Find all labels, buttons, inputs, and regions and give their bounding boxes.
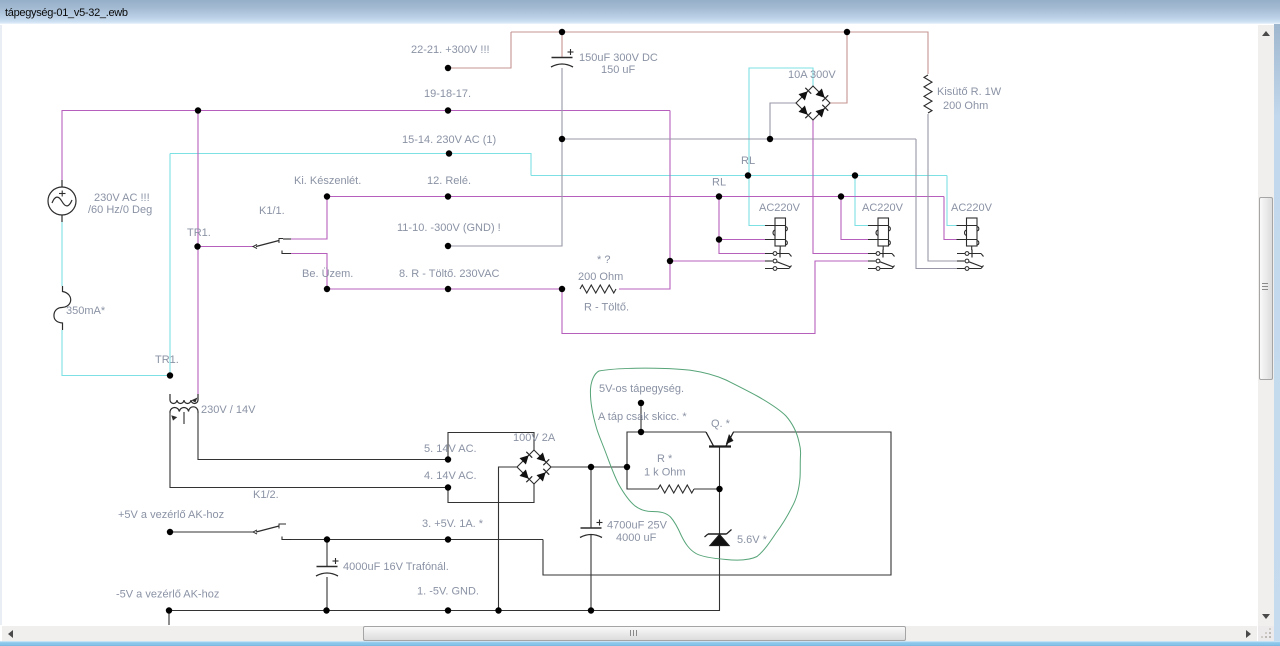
- switch K1/2 symbol: [253, 524, 291, 540]
- label "Q. *": [711, 418, 731, 430]
- wire cyan TR1 vertical: [169, 154, 171, 376]
- label "19-18-17.": [424, 88, 471, 100]
- label "230V / 14V": [201, 404, 256, 416]
- wire R* left lead: [627, 467, 658, 489]
- svg-text:3. +5V. 1A. *: 3. +5V. 1A. *: [422, 518, 484, 530]
- junction relay RL1 coil/contact: [716, 236, 722, 242]
- label "Ki. Készenlét.": [294, 175, 361, 187]
- label "4000 uF": [616, 532, 657, 544]
- svg-text:5. 14V AC.: 5. 14V AC.: [424, 443, 477, 455]
- node 15-14 terminal: [446, 150, 452, 156]
- wire magenta relay RL1 row2: [670, 260, 765, 262]
- wire gray bridge left link: [770, 103, 796, 139]
- junction bridge B2 output: [624, 464, 630, 470]
- node Be. Uzem: [324, 286, 330, 292]
- wire capacitor C3 bottom lead: [590, 534, 592, 611]
- svg-text:10A 300V: 10A 300V: [788, 69, 836, 81]
- label "+5V a vezérlő AK-hoz": [118, 509, 224, 521]
- resistor R-Tolto 200 Ohm symbol: [580, 285, 616, 293]
- label "11-10. -300V (GND) !": [397, 222, 501, 234]
- wire cyan 15-14 horizontal: [170, 154, 531, 176]
- junction RL net at relay RL2: [852, 172, 858, 178]
- label "R *": [657, 453, 673, 465]
- wire emitter loop box: [543, 432, 891, 575]
- wire +5V switch input: [170, 531, 254, 533]
- wire magenta R-Tolto right: [619, 111, 670, 290]
- wire magenta 19-18-17 horizontal: [62, 110, 671, 112]
- node 3. +5V 1A terminal: [445, 536, 451, 542]
- wire magenta relay RL2 coil: [841, 197, 868, 240]
- svg-text:Kisütő R. 1W: Kisütő R. 1W: [937, 86, 1002, 98]
- junction C3 top: [588, 464, 594, 470]
- svg-text:-5V a vezérlő AK-hoz: -5V a vezérlő AK-hoz: [116, 589, 219, 601]
- wire magenta Ki.Keszenlet to switch: [291, 197, 327, 240]
- junction 19-18-17 at TR1 primary: [195, 107, 201, 113]
- label "K1/2.": [253, 489, 279, 501]
- label "200 Ohm": [578, 271, 623, 283]
- wire gray Kisuto resistor lower lead: [928, 114, 957, 261]
- junction 15-14 net to bridge D1: [767, 136, 773, 142]
- horizontal scrollbar: [2, 626, 1257, 641]
- node 5V-os tapegyseg terminal: [638, 400, 644, 406]
- window bottom border strip: [0, 641, 1280, 646]
- junction 12. Rele net at relay RL1: [716, 193, 722, 199]
- svg-text:350mA*: 350mA*: [66, 305, 106, 317]
- label "3. +5V. 1A. *": [422, 518, 484, 530]
- svg-text:200 Ohm: 200 Ohm: [943, 100, 988, 112]
- label "Kisütő R. 1W": [937, 86, 1002, 98]
- junction C4 top: [324, 536, 330, 542]
- svg-text:* ?: * ?: [597, 254, 610, 266]
- svg-text:R *: R *: [657, 453, 673, 465]
- label "230V AC !!!": [94, 192, 150, 204]
- svg-text:TR1.: TR1.: [155, 354, 179, 366]
- window right border: [1274, 24, 1280, 642]
- wire magenta relay RL1 row1: [719, 240, 765, 254]
- wire cyan bridge top link: [749, 68, 813, 226]
- wire 5V terminal stub: [640, 403, 642, 432]
- svg-text:150uF 300V DC: 150uF 300V DC: [579, 52, 658, 64]
- label "10A 300V": [788, 69, 836, 81]
- AC source V1 230V symbol: [48, 180, 76, 222]
- label "200 Ohm": [943, 100, 988, 112]
- wire magenta 8. R-Tolto horizontal: [327, 288, 562, 290]
- junction R* / Q1 base / zener: [716, 486, 722, 492]
- wire magenta relay RL3 coil: [944, 197, 957, 240]
- svg-text:A táp csak skicc. *: A táp csak skicc. *: [598, 411, 687, 423]
- svg-text:4700uF 25V: 4700uF 25V: [607, 520, 668, 532]
- transformer TR1 symbol: [170, 394, 198, 424]
- wire magenta TR1 primary vertical: [197, 111, 199, 395]
- node +5V terminal: [167, 529, 173, 535]
- label "1 k Ohm": [644, 467, 686, 479]
- wire gray 11-10 -300V link: [448, 139, 562, 246]
- wire +5V rail: [286, 539, 543, 541]
- svg-text:1 k Ohm: 1 k Ohm: [644, 467, 686, 479]
- capacitor C4 4000uF symbol: [316, 558, 339, 576]
- wire magenta bridge bottom to RL2 row1: [813, 120, 868, 254]
- wire base lead Q1: [719, 447, 721, 489]
- junction RL net at relay RL1: [745, 172, 751, 178]
- label "/60 Hz/0 Deg": [88, 204, 152, 216]
- resistor R* 1 kOhm symbol: [658, 485, 694, 493]
- wire rosybrown +300V top rail: [511, 32, 928, 74]
- node 4. 14V AC terminal: [445, 484, 451, 490]
- capacitor C1 150uF 300V symbol: [551, 49, 574, 67]
- wire cyan relay RL2 coil: [855, 176, 868, 226]
- svg-text:4. 14V AC.: 4. 14V AC.: [424, 470, 477, 482]
- svg-text:12. Relé.: 12. Relé.: [427, 175, 471, 187]
- resistor Kisuto 200 Ohm 1W symbol: [924, 75, 932, 113]
- svg-text:AC220V: AC220V: [862, 202, 904, 214]
- node 22-21 +300V terminal: [445, 65, 451, 71]
- label "TR1.": [155, 354, 179, 366]
- wire gray relay RL3 row3: [916, 139, 957, 269]
- label "R - Töltő.": [584, 302, 629, 314]
- wire capacitor C4 top lead: [326, 540, 328, 567]
- wire R* right lead: [694, 488, 720, 490]
- node 5. 14V AC terminal: [445, 456, 451, 462]
- svg-text:RL: RL: [712, 177, 726, 189]
- svg-text:22-21. +300V !!!: 22-21. +300V !!!: [411, 44, 490, 56]
- svg-text:4000uF 16V Trafónál.: 4000uF 16V Trafónál.: [343, 561, 449, 573]
- label "150 uF": [601, 64, 636, 76]
- svg-text:TR1.: TR1.: [187, 227, 211, 239]
- label "RL": [712, 177, 726, 189]
- window title bar: [0, 0, 1280, 24]
- label "Be. Üzem.": [302, 268, 353, 280]
- svg-text:8. R - Töltő. 230VAC: 8. R - Töltő. 230VAC: [399, 268, 500, 280]
- wire gray 15-14 230VAC horizontal: [562, 138, 916, 140]
- junction top rail to bridge D1: [844, 29, 850, 35]
- svg-text:K1/1.: K1/1.: [259, 205, 285, 217]
- label "RL": [741, 155, 755, 167]
- label "350mA*": [66, 305, 106, 317]
- label "K1/1.": [259, 205, 285, 217]
- node Ki. Keszenlet: [324, 193, 330, 199]
- label "1. -5V. GND.": [417, 586, 479, 598]
- junction R-Tolto resistor left: [559, 286, 565, 292]
- junction 12. Rele net at relay RL2: [838, 193, 844, 199]
- wire magenta relay RL1 coil: [719, 197, 765, 240]
- wire cyan relay RL3 coil: [947, 176, 957, 226]
- label "AC220V": [951, 202, 993, 214]
- wire ground rail -5V: [169, 610, 720, 612]
- label "5V-os tápegység.": [599, 383, 684, 395]
- svg-text:19-18-17.: 19-18-17.: [424, 88, 471, 100]
- label "12. Relé.": [427, 175, 471, 187]
- label "22-21. +300V !!!": [411, 44, 490, 56]
- svg-text:AC220V: AC220V: [951, 202, 993, 214]
- svg-text:15-14. 230V AC (1): 15-14. 230V AC (1): [402, 134, 496, 146]
- junction C4 bottom rail: [323, 607, 329, 613]
- label "4000uF 16V Trafónál.": [343, 561, 449, 573]
- wire TR1 secondary right to 5.14V: [198, 413, 448, 460]
- svg-text:RL: RL: [741, 155, 755, 167]
- svg-text:230V / 14V: 230V / 14V: [201, 404, 256, 416]
- zener diode D3 5.6V symbol: [705, 530, 732, 546]
- svg-text:5V-os tápegység.: 5V-os tápegység.: [599, 383, 684, 395]
- svg-text:Q. *: Q. *: [711, 418, 731, 430]
- wire cyan source bottom: [61, 222, 63, 286]
- relay RL1 AC220V symbol: [765, 218, 792, 270]
- wire bridge B2 right output: [551, 466, 627, 468]
- node 8. R-Tolto terminal: [445, 286, 451, 292]
- wire gray capacitor C1 bottom lead: [561, 68, 563, 139]
- junction TR1 primary cyan: [167, 372, 173, 378]
- annotation green outline 5V supply: [590, 368, 800, 560]
- wire magenta 12. Rele horizontal: [327, 196, 944, 198]
- wire capacitor C4 bottom lead: [326, 577, 328, 611]
- label "150uF 300V DC": [579, 52, 658, 64]
- node 12. Rele terminal: [445, 193, 451, 199]
- label "AC220V": [862, 202, 904, 214]
- wire rosybrown bridge right link: [830, 32, 847, 103]
- svg-text:230V AC !!!: 230V AC !!!: [94, 192, 150, 204]
- wire magenta bottom loop: [562, 261, 868, 334]
- junction top rail at C1: [559, 29, 565, 35]
- junction bridge B2 left rail: [495, 607, 501, 613]
- svg-text:R - Töltő.: R - Töltő.: [584, 302, 629, 314]
- label "4700uF 25V": [607, 520, 668, 532]
- node -5V terminal: [166, 607, 172, 613]
- junction relay RL1 row2 branch: [667, 258, 673, 264]
- svg-text:K1/2.: K1/2.: [253, 489, 279, 501]
- wire 5.14V to bridge B2 top: [448, 433, 534, 460]
- fuse F1 350mA symbol: [54, 286, 71, 330]
- wire zener column: [719, 489, 721, 611]
- wire magenta TR1 to switch common: [198, 246, 254, 248]
- vertical scrollbar: [1258, 25, 1274, 626]
- svg-text:AC220V: AC220V: [759, 202, 801, 214]
- svg-text:200 Ohm: 200 Ohm: [578, 271, 623, 283]
- svg-text:Be. Üzem.: Be. Üzem.: [302, 268, 353, 280]
- junction C3 bottom rail: [588, 607, 594, 613]
- svg-text:+5V a vezérlő AK-hoz: +5V a vezérlő AK-hoz: [118, 509, 224, 521]
- wire collector rail: [627, 432, 706, 467]
- switch K1/1 symbol: [253, 239, 291, 254]
- label "TR1.": [187, 227, 211, 239]
- label "15-14. 230V AC (1)": [402, 134, 496, 146]
- relay RL2 AC220V symbol: [868, 218, 895, 270]
- node 1. -5V GND terminal: [445, 607, 451, 613]
- label "8. R - Töltő. 230VAC": [399, 268, 500, 280]
- wire bridge B2 left to ground rail: [499, 467, 518, 611]
- svg-text:11-10. -300V (GND) !: 11-10. -300V (GND) !: [397, 222, 501, 234]
- svg-text:Ki. Készenlét.: Ki. Készenlét.: [294, 175, 361, 187]
- svg-text:150 uF: 150 uF: [601, 64, 636, 76]
- node 11-10 -300V terminal: [445, 243, 451, 249]
- wire cyan fuse to TR1 primary: [62, 330, 170, 376]
- wire capacitor C3 top lead: [590, 467, 592, 528]
- label "5. 14V AC.": [424, 443, 477, 455]
- svg-text:/60 Hz/0 Deg: /60 Hz/0 Deg: [88, 204, 152, 216]
- junction collector rail: [638, 429, 644, 435]
- svg-text:4000 uF: 4000 uF: [616, 532, 657, 544]
- wire magenta Be.Uzem from switch: [291, 254, 327, 290]
- wire TR1 secondary left to 4.14V: [170, 413, 448, 488]
- transistor Q1 PNP symbol: [706, 432, 734, 447]
- label "4. 14V AC.": [424, 470, 477, 482]
- node TR1 primary switch: [194, 243, 200, 249]
- wire 4.14V to bridge B2 bottom: [448, 484, 534, 503]
- wire -5V terminal stub: [168, 611, 170, 626]
- label "100V 2A": [513, 432, 556, 444]
- wire cyan RL horizontal: [531, 175, 947, 177]
- label "-5V a vezérlő AK-hoz": [116, 589, 219, 601]
- wire rosybrown 22-21 +300V: [448, 32, 511, 68]
- svg-text:100V 2A: 100V 2A: [513, 432, 556, 444]
- label "A táp csak skicc. *": [598, 411, 687, 423]
- svg-text:5.6V *: 5.6V *: [737, 534, 768, 546]
- wire rosybrown capacitor C1 top lead: [561, 32, 563, 57]
- svg-text:1. -5V. GND.: 1. -5V. GND.: [417, 586, 479, 598]
- wire magenta source top vertical: [61, 111, 63, 181]
- bridge rectifier D2 100V 2A symbol: [517, 450, 551, 484]
- capacitor C3 4700uF symbol: [580, 520, 603, 538]
- node 19-18-17 terminal: [445, 107, 451, 113]
- relay RL3 AC220V symbol: [957, 218, 984, 270]
- label "5.6V *": [737, 534, 768, 546]
- label "* ?": [597, 254, 610, 266]
- label "AC220V": [759, 202, 801, 214]
- junction C1 bottom / 15-14 net: [559, 136, 565, 142]
- bridge rectifier D1 10A 300V symbol: [796, 86, 830, 120]
